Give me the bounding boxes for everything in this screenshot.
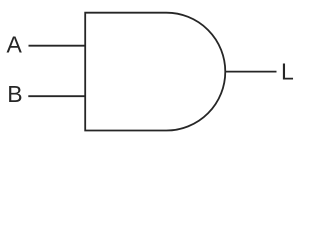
svg-text:L: L (281, 59, 294, 85)
wire output (225, 71, 276, 73)
wire input B (28, 95, 85, 97)
wire input A (29, 45, 86, 47)
AND gate U1 (85, 13, 225, 131)
svg-text:A: A (7, 32, 23, 58)
svg-text:B: B (7, 81, 22, 107)
